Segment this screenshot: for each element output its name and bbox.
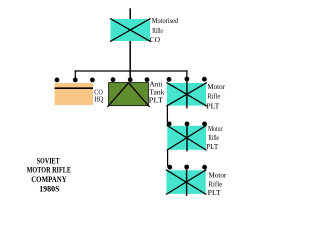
svg-text:MOTOR RIFLE: MOTOR RIFLE [27, 166, 72, 175]
wire: drop to CO HQ [74, 70, 76, 78]
node dots above Motor Rifle PLT 1 [167, 77, 207, 82]
wire: left drop from PLT1 to PLT2 [166, 105, 168, 123]
svg-text:Motorised: Motorised [152, 16, 179, 25]
unit box U4: Motor Rifle PLT 1 (cyan rect, X + center line) [166, 79, 207, 108]
svg-text:PLT: PLT [149, 96, 164, 105]
svg-text:1980S: 1980S [39, 185, 60, 194]
label: Motor Rifle PLT 2 [206, 124, 223, 151]
unit box U6: Motor Rifle PLT 3 (cyan rect, X + center line) [166, 167, 206, 196]
svg-text:Motor: Motor [209, 170, 227, 179]
wire: horizontal bar [75, 70, 188, 72]
svg-text:PLT: PLT [206, 142, 219, 151]
unit box U2: CO HQ (orange rect with top bar) [55, 83, 93, 105]
node dots above Motor Rifle PLT 3 [167, 165, 207, 170]
svg-text:PLT: PLT [208, 188, 221, 197]
svg-text:Rifle: Rifle [152, 26, 163, 35]
wire: drop to Motor Rifle PLT 1 [186, 70, 188, 78]
wire: vertical stem through Motorised Rifle CO down to Anti Tank PLT middle dot [129, 8, 131, 79]
svg-text:PLT: PLT [206, 101, 220, 110]
svg-text:SOVIET: SOVIET [37, 156, 60, 165]
title block: SOVIET MOTOR RIFLE COMPANY 1980S [27, 156, 72, 193]
unit box U3: Anti Tank PLT (green rect with chevron) [107, 83, 149, 107]
svg-text:Rifle: Rifle [207, 92, 220, 101]
svg-text:Motor: Motor [207, 82, 225, 91]
node dots above Anti Tank PLT [111, 77, 150, 82]
label: Anti Tank PLT [149, 80, 165, 105]
label: Motor Rifle PLT 1 [206, 82, 225, 110]
unit box U1: Motorised Rifle CO (cyan rect with infantry X) [110, 18, 151, 41]
node dots above Motor Rifle PLT 2 [167, 122, 207, 127]
svg-text:HQ: HQ [94, 94, 104, 103]
unit box U5: Motor Rifle PLT 2 (cyan rect, X + center line) [167, 124, 207, 151]
label: Motorised Rifle CO [150, 16, 179, 44]
label: Motor Rifle PLT 3 [208, 170, 227, 197]
svg-text:CO: CO [150, 35, 161, 44]
svg-text:COMPANY: COMPANY [31, 175, 67, 184]
label: CO HQ [94, 87, 104, 103]
svg-text:Motor: Motor [208, 124, 223, 133]
wire: left drop from PLT2 to PLT3 [167, 149, 169, 166]
node dots above CO HQ [55, 78, 95, 83]
svg-text:Rifle: Rifle [208, 133, 219, 142]
